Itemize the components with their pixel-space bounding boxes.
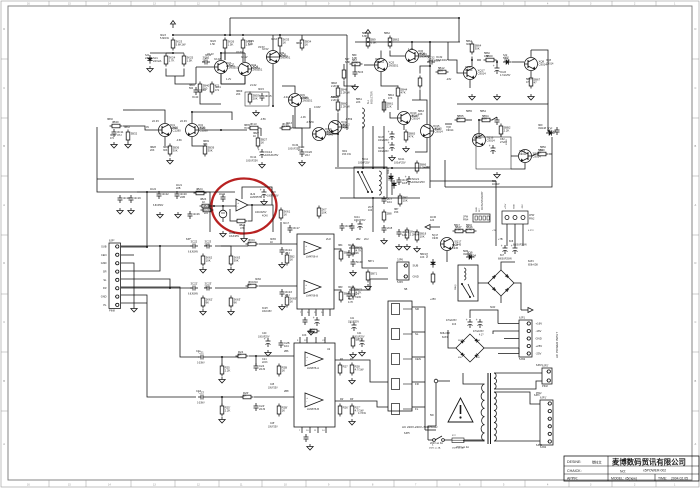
svg-text:6JP5: 6JP5 [404,432,410,435]
svg-text:22.3V: 22.3V [152,119,159,123]
svg-text:10UF25V: 10UF25V [268,387,278,389]
junction [146,191,148,193]
ground [131,306,137,312]
capacitor 3C22' [190,282,198,291]
svg-text:SR: SR [103,270,107,274]
label [506,139,508,145]
svg-text:1K: 1K [255,281,258,284]
wire [470,310,498,324]
wire FL route [147,303,196,397]
capacitor 4C22 [157,191,170,199]
svg-text:2004.02.05: 2004.02.05 [671,477,688,481]
label 4U2 LM4557B [250,192,262,199]
wire XQ1 collector [135,110,165,123]
svg-text:3B32: 3B32 [124,126,130,129]
svg-text:PIN4: PIN4 [463,219,469,222]
junction [471,59,473,61]
capacitor 3C23' [204,282,212,291]
svg-text:C9014: C9014 [546,63,554,66]
resistor 3B35 [248,122,261,130]
resistor 5B7 [350,58,363,66]
resistor 4B24 [200,204,212,208]
transistor XQ5 [267,51,291,64]
resistor 5B61 [382,100,393,113]
power flag [171,21,176,29]
svg-text:3C26: 3C26 [348,244,355,247]
svg-text:100UF25V: 100UF25V [265,153,279,157]
wire SL input row [121,287,192,289]
wire [471,57,473,67]
capacitor XC23 [493,64,500,74]
wire [221,357,223,366]
svg-text:5B62: 5B62 [393,38,400,42]
svg-text:2C8: 2C8 [387,226,393,230]
svg-text:3C22: 3C22 [191,240,198,244]
resistor 3B36 [168,144,179,157]
svg-text:100uF25V: 100uF25V [378,151,389,153]
svg-text:7D60: 7D60 [389,175,391,181]
capacitor NC21 [405,175,425,185]
resistor 5B54 [480,114,493,122]
wire pin1 [121,246,147,248]
svg-text:2.2K/W: 2.2K/W [341,90,351,94]
svg-text:104: 104 [368,209,373,212]
bridge rectifier 6AP4 [456,334,484,362]
transistor XQ17 [464,67,487,80]
relay contacts [357,171,373,193]
ground [241,236,247,242]
wire left loop [97,127,210,232]
svg-text:200V ac 4A: 200V ac 4A [456,446,469,449]
svg-text:2N5551: 2N5551 [300,97,309,100]
label AC POWER INPUT [555,332,559,358]
capacitor C24' [254,403,266,411]
wire [500,134,502,137]
junction [367,41,369,43]
label [348,318,359,323]
svg-text:6JP1': 6JP1' [540,396,547,400]
wire GND [121,295,147,303]
capacitor 3C29 [350,223,355,231]
svg-text:1K: 1K [284,212,288,216]
svg-text:10UF25V: 10UF25V [229,235,240,238]
svg-text:-25V: -25V [522,204,524,209]
label 21.62 [250,83,257,87]
svg-text:-: - [237,205,238,209]
junction [337,133,339,135]
label XC23 [500,71,511,77]
capacitor 3C24 [280,247,293,255]
svg-text:15K: 15K [394,211,399,214]
op-amp 2U2-A [304,242,321,259]
wire [372,126,374,167]
wire [511,155,518,157]
capacitor 6C8 [511,244,518,254]
ground [200,309,206,315]
wire [500,296,502,303]
wire SR [121,246,160,271]
node voltage labels [207,45,265,56]
svg-text:2.2K: 2.2K [225,368,231,372]
svg-text:-25V: -25V [536,352,542,356]
label AC mains [402,425,438,429]
svg-text:10K: 10K [484,55,489,58]
speaker pin labels [415,307,421,411]
svg-text:3B30: 3B30 [112,120,119,124]
svg-text:22J: 22J [205,284,210,288]
capacitor 3C11 [112,129,124,137]
capacitor 3C17 [288,225,301,233]
label 2U2 [326,237,331,241]
svg-text:6.8K: 6.8K [371,40,377,44]
svg-text:A940: A940 [341,124,347,127]
svg-text:3C17: 3C17 [283,222,290,225]
capacitor C52 [489,144,496,154]
svg-text:C21: C21 [196,350,201,353]
svg-text:5B71: 5B71 [371,272,378,276]
wire [326,133,338,135]
label 3L1 INDUCTOR [367,91,374,104]
wire [522,224,524,246]
wire [362,126,364,167]
svg-text:0.33NV: 0.33NV [197,363,205,365]
wire to power section [495,181,497,246]
ground [228,267,234,273]
svg-text:21.62: 21.62 [250,83,257,87]
svg-text:LM4766-A: LM4766-A [306,255,318,259]
capacitor C5 [555,127,560,135]
svg-text:+: + [258,148,260,152]
resistor R26' [241,391,254,399]
svg-text:4.2?V: 4.2?V [528,230,534,232]
svg-text:10UF25V: 10UF25V [268,426,278,428]
resistor 4B26 [235,219,248,223]
transformer core [488,373,491,444]
svg-text:1K: 1K [253,135,256,138]
svg-text:124: 124 [402,233,407,237]
resistor 3B39 [203,144,214,157]
label XQ8 [546,59,554,66]
svg-text:4C22: 4C22 [150,188,157,191]
wire [496,60,498,65]
capacitor NC25 [388,141,395,151]
svg-text:22J3: 22J3 [259,367,266,371]
label 4C19 [219,193,226,196]
svg-text:22K: 22K [356,101,361,104]
svg-text:+25V: +25V [505,203,507,209]
wire [511,163,525,169]
svg-text:-0.56: -0.56 [260,118,266,121]
wire [445,123,452,125]
svg-text:-: - [306,359,307,363]
resistor 5B72 [351,286,362,299]
junction [229,34,231,36]
svg-text:+: + [264,337,266,341]
svg-text:9K: 9K [206,300,210,304]
junction [411,41,413,43]
wire [164,137,166,146]
svg-text:+: + [466,318,468,322]
resistor 3B40 [198,82,209,95]
wire [137,191,235,193]
ground [279,262,285,268]
svg-text:24V2A: 24V2A [145,57,153,60]
svg-text:100uF25V: 100uF25V [394,161,406,164]
junction [389,41,391,43]
wire stub top [229,18,231,35]
svg-text:100KJ: 100KJ [506,139,508,145]
wire [282,86,295,93]
resistor 3B3' [339,290,349,303]
label 470uF25V [446,320,457,326]
wire -16V [498,330,519,332]
svg-text:22J3: 22J3 [259,407,266,411]
ground [175,212,181,218]
svg-text:1K: 1K [270,241,273,244]
resistor 3K23 [171,38,186,51]
svg-text:47K: 47K [409,134,414,138]
wire XQ7 base [196,66,214,68]
svg-text:2B6: 2B6 [284,350,289,353]
connector 6JP1' [540,396,553,450]
transistor XQ12 [329,121,351,134]
wire sub feed up [146,192,148,247]
svg-text:2B2: 2B2 [356,238,361,241]
capacitor C40cap [264,337,271,347]
capacitor 4C26 [188,211,201,219]
svg-text:1K: 1K [457,117,461,121]
svg-text:1K: 1K [202,200,205,204]
svg-text:GND: GND [413,275,419,279]
svg-text:FR: FR [103,286,107,290]
resistor 5B47 [453,225,466,233]
svg-text:2.2K: 2.2K [225,408,231,412]
svg-text:1.5K: 1.5K [210,43,215,46]
label [197,363,205,365]
wire FR [121,287,180,295]
wire FR route [180,295,199,357]
label [268,423,278,428]
svg-text:AC POWER INPUT: AC POWER INPUT [555,332,559,358]
op-amp 2U2-B [304,281,321,298]
wire -25V [498,348,519,354]
ground [220,231,226,237]
svg-text:30K: 30K [163,149,168,152]
capacitor 3C16 [397,177,410,185]
pin labels [101,245,107,307]
svg-text:5C40: 5C40 [356,260,363,264]
junction [146,246,148,248]
junction [169,287,171,289]
capacitor 3C12 [202,56,210,65]
wire sec2 a [494,392,540,404]
IC 2U1 bottom pins [302,427,326,433]
junction [224,34,226,36]
ground [308,329,314,335]
transistor XQ4 [239,63,263,76]
transistor XQ3 [375,59,399,72]
svg-text:24V2A: 24V2A [153,59,162,63]
resistor 5B9 [366,36,376,49]
wire 4U2 input [209,205,236,207]
svg-text:IN4148: IN4148 [538,127,547,130]
junction [272,105,274,107]
resistor 3K29 [241,38,252,51]
svg-text:A: A [695,442,697,446]
wire [175,76,196,84]
resistor 3B27 [256,136,267,149]
svg-text:2N5551: 2N5551 [389,63,399,67]
wire [412,100,427,124]
ground [157,212,163,218]
junction [222,205,224,207]
op-amp 2U1-A [305,352,323,370]
wire [342,126,347,128]
svg-text:4C3: 4C3 [452,324,457,326]
wire [549,153,552,155]
capacitor XC14 [258,148,279,158]
svg-text:XC40: XC40 [199,88,206,92]
pin numbers [300,312,324,314]
ground [279,304,285,310]
wire [123,109,135,111]
label -0.52W [306,121,314,124]
junction [255,355,257,357]
label 7D60 [389,175,391,181]
svg-text:6D8+6D8: 6D8+6D8 [440,333,450,335]
svg-text:1K: 1K [282,408,286,412]
svg-text:100uF25V: 100uF25V [412,180,425,184]
resistor 3B34 [300,38,311,51]
wire [412,331,425,333]
svg-text:104: 104 [387,200,392,204]
ground [307,444,313,450]
wire driver rail [337,113,339,167]
wire [477,59,481,61]
wire [166,52,184,54]
transistor XQ10 [313,128,335,141]
ground [147,66,153,72]
svg-text:+: + [313,316,315,320]
svg-text:10uF400V: 10uF400V [436,59,448,62]
svg-text:+: + [476,318,478,322]
resistor 5B12 [436,66,449,74]
relay 5RL box [458,265,478,301]
svg-text:+25V: +25V [536,344,543,348]
ground [219,417,225,423]
svg-text:5B62: 5B62 [384,32,390,35]
ground [265,350,271,356]
label 4C8 [267,191,279,198]
label 3C41 [354,216,366,222]
label [327,348,331,351]
capacitor C23' [198,391,206,400]
svg-text:-24V: -24V [446,78,452,81]
junction [391,167,393,169]
capacitor 4C23 [260,188,267,198]
wire [429,42,431,56]
bridge rectifier 6AP3 [488,270,514,296]
junction [279,34,281,36]
capacitor 4C18 [118,195,131,203]
resistor 5B64 [470,42,481,55]
svg-text:NO:: NO: [620,470,626,474]
junction [221,356,223,358]
svg-text:47K: 47K [388,97,393,100]
ground [219,377,225,383]
capacitor XC32 [427,56,441,65]
wire [493,331,498,334]
capacitor 3C24' [280,289,293,297]
capacitor 4C19 [129,195,142,203]
wire pin2 [121,254,134,256]
wire [259,243,297,245]
svg-text:10K: 10K [302,334,307,337]
svg-text:22J: 22J [205,242,210,246]
svg-text:8JP*: 8JP* [109,239,114,243]
svg-text:4C19: 4C19 [134,196,141,200]
wire [448,330,456,348]
svg-text:1.2V: 1.2V [226,78,231,81]
svg-text:100uF25V: 100uF25V [358,161,370,164]
svg-text:47: 47 [534,80,538,84]
svg-text:2B6': 2B6' [284,390,289,393]
resistor 5B71 [366,270,377,283]
ground [396,244,402,250]
svg-text:A: A [3,442,5,446]
svg-text:LM1876-B: LM1876-B [307,407,319,411]
wire [215,245,248,247]
svg-text:32.6V: 32.6V [236,50,243,54]
svg-text:5W: 5W [430,414,434,417]
arrow symbol [521,308,533,313]
svg-text:5.1V: 5.1V [503,57,508,60]
svg-text:GND: GND [101,295,107,299]
box around 3BD9 [245,92,269,106]
resistor R28 [350,363,364,376]
resistor 3K63 [229,254,240,267]
junction [191,111,193,113]
ground [259,162,265,168]
svg-text:PL: PL [103,303,107,307]
wire [403,125,405,130]
svg-text:C: C [3,320,5,324]
wire [372,198,374,232]
relay RL1 box [354,167,387,198]
svg-text:8JP*: 8JP* [186,238,191,241]
wire sec1 b [494,381,542,389]
svg-text:0.03V: 0.03V [314,106,321,109]
wire [469,80,471,88]
resistor R28' [350,404,364,417]
capacitor C33 [304,434,309,442]
wire [419,55,430,57]
wire [334,248,341,250]
svg-text:2N5551: 2N5551 [375,61,384,64]
resistor 5B70 [351,244,362,257]
svg-text:-: - [305,287,306,291]
svg-text:30K: 30K [203,143,208,146]
junction [372,197,374,199]
inductor 3L1 coil [362,108,364,128]
junction [251,204,253,206]
svg-text:1K: 1K [290,299,294,303]
svg-text:C945: C945 [452,247,459,250]
capacitor 3C28 [340,223,353,231]
wire [215,287,248,289]
diode 5DB [466,251,476,260]
svg-text:6D8+6D8: 6D8+6D8 [528,264,538,266]
